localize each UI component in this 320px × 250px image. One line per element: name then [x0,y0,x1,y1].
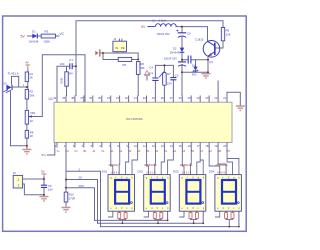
resistor R5 [118,57,132,67]
wire R6 bottom to chip pin [137,74,139,95]
svg-text:20: 20 [223,144,226,148]
svg-text:2M: 2M [141,66,146,70]
svg-text:2b6f5d1c8e: 2b6f5d1c8e [215,164,228,167]
svg-text:32: 32 [125,96,128,100]
wire pin22 long riser [217,81,219,96]
svg-text:224: 224 [167,82,172,86]
transistor Q1 C1815 [195,37,220,64]
svg-text:20: 20 [78,176,83,180]
svg-text:100K: 100K [59,77,63,83]
node input jack symbol [95,49,103,56]
svg-text:R5: R5 [123,63,127,67]
svg-text:23: 23 [205,96,208,100]
wire display bundle DS4 [209,148,220,175]
wire chip top pin stubs [57,96,227,103]
resistor R7 integrator [159,71,172,86]
wire C6 chain down through D2 to chip pin V- [181,27,183,96]
svg-text:1N4148: 1N4148 [29,40,39,44]
capacitor C5 [170,73,179,79]
svg-text:10K: 10K [226,33,231,37]
ground J2 [40,197,49,201]
wire negative pump row1 [182,57,208,72]
svg-text:270R: 270R [69,196,76,200]
resistor R2 [25,89,34,99]
wire TL431 anode down and to ground junction [11,91,27,146]
resistor R6 input 2M [136,62,145,75]
power 5V flag at J2 [41,170,46,177]
resistor R9 [221,28,230,41]
svg-text:J1: J1 [113,37,117,41]
svg-text:11: 11 [143,144,146,148]
svg-text:30: 30 [143,96,146,100]
capacitor C1 osc [60,58,74,69]
svg-text:1N4148: 1N4148 [170,51,180,55]
ground pump [202,74,211,78]
svg-text:L1: L1 [152,18,156,22]
svg-text:25: 25 [188,96,191,100]
node junction J2/C9 [43,178,45,180]
connector J2 [13,171,23,188]
wire oscillator A: pin riser, C1, R6b top [57,66,76,95]
wire DS1 bottom stubs [109,211,126,223]
svg-text:J2: J2 [13,171,16,175]
wire display bundle DS3 [182,148,184,175]
svg-text:27: 27 [170,96,173,100]
wire jack down to R5 left [103,53,118,60]
wire zener branch [195,60,197,73]
node junction integrator top [163,64,165,66]
svg-text:C6: C6 [187,32,191,36]
wire L1 out to Q1 collector [176,27,208,41]
svg-text:DS2: DS2 [138,170,144,174]
resistor R3 [41,29,55,43]
svg-text:39: 39 [62,96,65,100]
wire DS4 bottom stubs [215,211,232,226]
svg-text:104: 104 [60,62,65,66]
svg-text:21: 21 [223,96,226,100]
wire chip pin2 down to R10 [65,142,67,192]
wire R9 to Q1 base [215,41,223,48]
power 4V flag [25,60,30,72]
svg-text:2K: 2K [30,134,34,138]
svg-text:PE: PE [121,46,125,50]
svg-text:4V: 4V [25,60,29,64]
svg-text:IN: IN [116,46,119,50]
ground R10 [62,208,71,212]
wire bus 200 [95,211,168,220]
svg-text:1: 1 [18,183,20,187]
svg-text:15: 15 [179,144,182,148]
display DS4 [209,164,242,211]
svg-text:56K: 56K [30,93,35,97]
svg-text:16: 16 [188,144,191,148]
svg-text:22: 22 [214,96,217,100]
svg-text:474: 474 [149,72,154,76]
svg-text:2.2uH: 2.2uH [159,18,166,22]
node junction C6 top [181,26,183,28]
wire R10 to ground [65,202,67,207]
svg-text:28: 28 [161,96,164,100]
svg-text:2b6f5d1c8e: 2b6f5d1c8e [144,164,157,167]
resistor R1 [25,72,33,82]
svg-text:10: 10 [134,144,137,148]
node junction chain bottom [181,71,183,73]
svg-text:R7: R7 [167,72,171,76]
svg-text:5V: 5V [41,170,45,174]
wire display bundle DS1 [111,148,113,175]
svg-text:2K: 2K [30,76,34,80]
svg-text:AB: AB [218,150,222,153]
svg-text:104: 104 [48,188,53,192]
node junction jack [102,52,104,54]
svg-text:VR1: VR1 [30,111,36,115]
svg-text:35: 35 [98,96,101,100]
wire R5 right to R6 junction [132,59,139,61]
svg-text:18: 18 [205,144,208,148]
svg-text:12: 12 [152,144,155,148]
node junction emitter [207,59,209,61]
potentiometer VR1 [25,110,36,124]
svg-text:Q1: Q1 [209,60,213,64]
wire VR1 wiper riser to chip pin [29,55,85,117]
node junction R5/R6 [137,59,139,61]
svg-text:DS3: DS3 [173,170,179,174]
svg-text:5V1: 5V1 [192,72,197,76]
svg-text:24: 24 [197,96,200,100]
svg-text:33: 33 [116,96,119,100]
svg-text:37: 37 [80,96,83,100]
wire 4V to R1 [27,68,29,72]
power common flag [144,71,150,76]
capacitor series 104 [188,56,197,68]
capacitor C9 [41,184,53,192]
svg-text:100UF 25V: 100UF 25V [157,32,170,36]
svg-text:100K: 100K [44,40,51,44]
svg-text:V+: V+ [57,150,61,153]
svg-text:2 6 5 1 8: 2 6 5 1 8 [146,171,156,174]
node chip bottom pin numbers [55,144,227,148]
wire 5V-L1 lead [148,26,150,28]
wire DS3 bottom stubs [180,211,197,223]
svg-text:R3: R3 [45,29,49,33]
wire chip bottom pin stubs [57,142,227,147]
wire chip pin1 5V+ [48,142,55,155]
inductor L1 [148,18,176,26]
connector J1 [113,37,127,52]
svg-text:200: 200 [78,184,84,188]
wire R1-R2 junction row [14,82,28,90]
svg-text:29: 29 [152,96,155,100]
resistor R8 [25,130,34,138]
svg-text:17: 17 [197,144,200,148]
wire jack to J1 and R6 top [103,53,138,60]
wire VCC top rail from C1 junction to R9 [76,21,223,66]
node junction R1/R2/TL431 [26,86,28,88]
svg-text:2 6 5 1 8: 2 6 5 1 8 [182,171,192,174]
node display bus junction dots [122,220,240,228]
svg-text:38: 38 [71,96,74,100]
wire R2 to VR1 [26,99,28,110]
svg-text:D1: D1 [32,29,36,33]
svg-text:2b6f5d1c8e: 2b6f5d1c8e [180,164,193,167]
svg-text:31: 31 [134,96,137,100]
node junction D2 bottom [181,59,183,61]
wire R8 to ground [26,138,28,149]
svg-text:10 9 6 1: 10 9 6 1 [111,171,120,174]
svg-text:ICL7107CPL: ICL7107CPL [126,117,144,121]
capacitor C4 474 [149,65,159,80]
wire DS2 bottom stubs [144,211,161,223]
diode D1 [29,29,39,43]
wire J2 pin1 loop to C9 bottom [23,184,44,196]
resistor R4 osc [59,72,73,87]
transistor U2 TL431 [3,72,19,93]
op-amp U1 main IC ICL7107 body [49,97,233,142]
node junction C9 bottom [43,194,45,196]
display DS1 [102,164,135,211]
resistor R10 [64,192,75,202]
svg-text:40: 40 [53,96,56,100]
node junction anode/R8 [26,145,28,147]
svg-text:C1815: C1815 [195,37,204,41]
svg-text:5V: 5V [21,35,26,39]
svg-text:34: 34 [107,96,110,100]
svg-text:2b6f5d1c: 2b6f5d1c [109,164,120,167]
svg-text:U1: U1 [49,97,53,101]
wire J1 pins [117,52,123,53]
svg-text:DS4: DS4 [209,170,215,174]
wire integrator cluster top [155,65,173,95]
svg-text:36: 36 [89,96,92,100]
svg-text:DS1: DS1 [102,170,108,174]
wire common flag stem [146,76,148,80]
svg-text:VC: VC [60,32,65,36]
svg-text:TL431 A: TL431 A [8,72,19,76]
svg-text:19: 19 [214,144,217,148]
ground pin21 right [236,106,245,110]
svg-text:5V+: 5V+ [42,153,47,157]
svg-text:C5: C5 [175,73,179,77]
wire TL431 ref loop [12,76,19,87]
wire J2 pin2 to 5V and C9 [23,176,44,185]
wire bus 2 [101,211,239,226]
svg-text:R4: R4 [69,72,73,76]
wire bus 20 [98,211,204,223]
wire display bundle DS2 [147,148,149,175]
svg-text:13: 13 [161,144,164,148]
svg-text:C1: C1 [69,58,73,62]
capacitor 100uF electrolytic second [164,57,186,67]
display DS3 [173,164,206,211]
svg-text:8 9 6 4 2: 8 9 6 4 2 [217,171,227,174]
ground left TL431 [22,150,31,154]
svg-text:26: 26 [179,96,182,100]
svg-text:2: 2 [78,167,81,171]
svg-text:2: 2 [18,178,20,182]
svg-text:14: 14 [170,144,173,148]
display DS2 [138,164,171,211]
diode D2 [170,47,185,55]
wire range tap 20 [66,180,98,224]
svg-text:C4: C4 [149,65,153,69]
svg-text:1K: 1K [30,119,34,123]
wire gnd21 riser [227,92,240,106]
wire negative pump row2 to ground [182,71,208,73]
svg-text:100UF 25V: 100UF 25V [164,57,177,61]
border frame [3,16,247,231]
diode ZD1 zener [192,67,199,77]
wire VR1 to R8 [26,124,28,130]
svg-text:PO: PO [226,150,230,153]
node chip top pin numbers [53,96,226,100]
node range tap junctions [65,179,67,181]
node chip bottom segment labels [57,150,230,153]
wire range tap 2 [66,171,101,226]
resistor network under displays [118,213,234,219]
wire 5V-D1-R3-VC [28,35,60,37]
wire range tap 200 [66,188,95,221]
capacitor C6 100uF electrolytic [157,30,192,38]
node junction C1 right [75,65,77,67]
svg-text:U2: U2 [3,82,7,86]
